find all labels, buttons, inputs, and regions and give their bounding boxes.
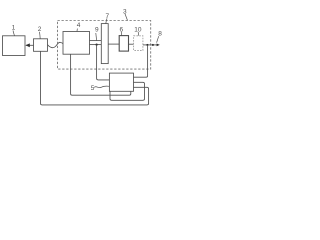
wire box 7 to box 6 — [108, 43, 119, 45]
label 1 — [12, 25, 16, 32]
box 2 — [34, 39, 48, 52]
leader for label 7 — [106, 18, 107, 23]
bus 9 upper line between box 4 and box 7 — [90, 40, 102, 42]
label 6 — [120, 27, 124, 34]
box 4 — [63, 32, 90, 55]
svg-text:9: 9 — [95, 26, 99, 33]
leader for label 6 — [120, 32, 122, 36]
label 4 — [77, 22, 81, 29]
leader for label 3 — [125, 14, 128, 21]
leader for label 2 — [39, 32, 42, 39]
wire box 4 bottom down right and up into box 5 bottom — [71, 54, 131, 95]
leader for label 8 — [157, 36, 159, 42]
leader for label 10 — [137, 32, 139, 36]
box 10 — [134, 36, 143, 51]
svg-text:5: 5 — [91, 85, 95, 92]
label 3 — [123, 8, 127, 15]
label 5 — [91, 85, 95, 92]
box 7 — [101, 24, 108, 64]
label 8 — [158, 31, 162, 38]
label 7 — [106, 13, 110, 20]
wire wavy cable from box 2 to box 4 — [48, 42, 64, 47]
output wire 8 — [143, 44, 158, 46]
svg-text:1: 1 — [12, 25, 16, 32]
leader wavy for label 5 — [94, 86, 109, 88]
svg-text:4: 4 — [77, 22, 81, 29]
junction dot on bus — [96, 44, 98, 46]
wire big loop box 2 bottom to box 5 right — [41, 51, 149, 105]
box 1 — [3, 36, 26, 56]
wire box 5 right loop down and into box 5 bottom — [110, 82, 145, 100]
wire box 6 to box 10 — [129, 43, 134, 45]
box 5 — [109, 73, 133, 91]
label 2 — [38, 26, 42, 33]
label 10 — [134, 27, 142, 34]
wire arrow from box 2 to box 1 — [26, 44, 34, 46]
wire box 5 right to output junction — [134, 45, 148, 77]
leader for label 4 — [76, 29, 78, 32]
leader for label 9 — [95, 33, 98, 40]
junction dot A on output wire — [146, 44, 148, 46]
label 9 — [95, 26, 99, 33]
dashed enclosure 3 — [58, 21, 151, 70]
output arrowhead — [157, 44, 160, 47]
bus 9 lower line between box 4 and box 7 — [90, 44, 102, 46]
svg-text:7: 7 — [106, 13, 110, 20]
box 6 — [119, 36, 128, 52]
wire from bus junction down to box 5 left — [97, 45, 110, 80]
leader for label 1 — [13, 31, 15, 36]
junction dot B on output wire — [152, 44, 154, 46]
